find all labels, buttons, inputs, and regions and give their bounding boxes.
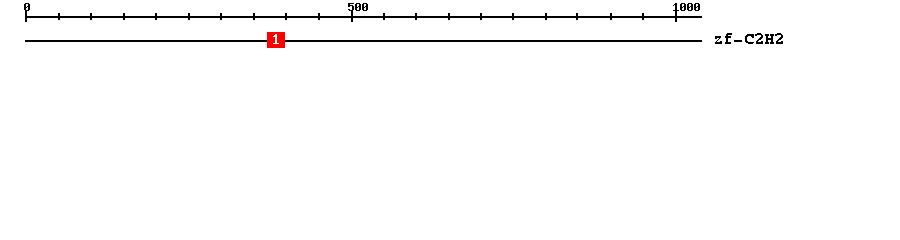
- feature backbone line, right segment: [285, 40, 702, 42]
- background: [0, 0, 900, 58]
- track label zf-C2H2: [715, 33, 783, 44]
- domain box (feature 1): [267, 32, 285, 48]
- scale label 0: [24, 3, 30, 11]
- feature backbone line, left segment: [25, 40, 267, 42]
- ruler baseline (scale axis): [25, 16, 702, 18]
- white numeral 1 on domain box: [273, 34, 279, 44]
- ruler tick marks (majors at 0/500/1000, minors every 50): [25, 11, 677, 22]
- scale label 1000: [673, 3, 700, 11]
- scale label 500: [348, 3, 368, 11]
